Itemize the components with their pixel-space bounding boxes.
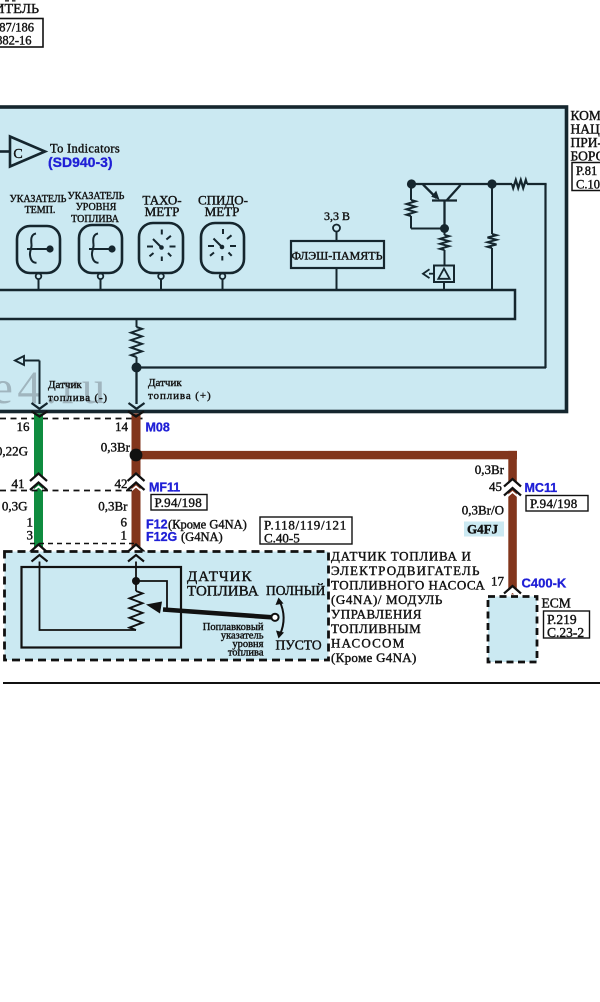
module text block: [331, 549, 485, 666]
bus bar: [0, 290, 515, 319]
svg-text:ДАТЧИК ТОПЛИВА И: ДАТЧИК ТОПЛИВА И: [331, 549, 472, 564]
float arm arrow: [163, 610, 272, 618]
node C: [440, 224, 449, 233]
gauge M3 tachometer: [139, 223, 183, 273]
brown chevron C400: [504, 586, 521, 598]
svg-text:МЕТР: МЕТР: [205, 204, 240, 219]
svg-text:ФЛЭШ-ПАМЯТЬ: ФЛЭШ-ПАМЯТЬ: [292, 249, 383, 263]
open chevron brown: [128, 555, 144, 562]
svg-text:(Кроме G4NA): (Кроме G4NA): [331, 650, 417, 665]
buzzer U2 (box with triangle): [423, 266, 454, 292]
svg-text:ПУСТО: ПУСТО: [276, 638, 322, 653]
svg-text:топлива (+): топлива (+): [148, 390, 212, 402]
gauge M3 stem: [158, 274, 164, 280]
resistor R5 below bus: [131, 319, 142, 363]
cluster callout text: [571, 108, 600, 164]
svg-text:ЭЛЕКТРОДВИГАТЕЛЬ: ЭЛЕКТРОДВИГАТЕЛЬ: [331, 563, 481, 578]
green chevrons MF11: [30, 474, 47, 493]
gauge M1 stem: [36, 274, 42, 280]
ref box P.94/198 right: [526, 496, 588, 512]
resistor R1 (base): [407, 184, 442, 229]
instrument cluster box: [0, 107, 567, 412]
wire down to connector: [135, 371, 137, 404]
svg-text:14: 14: [115, 419, 129, 434]
svg-text:C: C: [13, 147, 22, 162]
green wire: [34, 414, 43, 554]
brown wire: [132, 414, 141, 554]
header fuse label (cut off at page edge): [0, 0, 39, 17]
svg-text:МЕТР: МЕТР: [145, 204, 180, 219]
connector arrow (+): [129, 403, 145, 409]
ECM dashed box: [488, 597, 537, 663]
svg-text:(G4NA): (G4NA): [181, 530, 223, 544]
green chevron at sender: [30, 545, 47, 557]
svg-text:C.23-2: C.23-2: [547, 625, 584, 640]
node B: [487, 179, 496, 188]
resistor R3: [488, 184, 497, 291]
svg-text:0,3Br: 0,3Br: [101, 440, 131, 455]
brown chevrons MF11: [128, 474, 145, 493]
resistor R6 (sender element): [130, 591, 143, 630]
svg-text:F12G: F12G: [146, 530, 177, 544]
open chevron green: [32, 555, 48, 562]
svg-text:0,3Br: 0,3Br: [98, 499, 128, 514]
flash memory box: [291, 241, 384, 268]
node E: [132, 577, 140, 585]
node M08 junction: [130, 449, 143, 462]
svg-text:P.94/198: P.94/198: [155, 495, 203, 510]
ref box P.94/198: [151, 495, 207, 511]
bottom separator: [3, 682, 600, 684]
svg-text:ТОПЛИВА: ТОПЛИВА: [187, 584, 259, 600]
svg-text:G4FJ: G4FJ: [467, 522, 499, 537]
svg-text:41: 41: [12, 476, 25, 491]
gauge M4 stem: [220, 274, 226, 280]
svg-text:C400-K: C400-K: [522, 576, 567, 591]
svg-text:УРОВНЯ: УРОВНЯ: [76, 202, 117, 213]
node D (fuel signal junction): [132, 363, 142, 373]
right feedback wire: [544, 184, 546, 368]
svg-text:0,3Br/O: 0,3Br/O: [462, 503, 504, 518]
header reference box 87/186 82-16: [0, 19, 43, 48]
label float: [203, 622, 264, 659]
connector chevrons below box: [32, 411, 48, 416]
svg-text:УКАЗАТЕЛЬ: УКАЗАТЕЛЬ: [10, 194, 67, 205]
fuel sender (-) arrow: [15, 356, 24, 365]
svg-text:топлива: топлива: [228, 648, 264, 659]
svg-text:C.40-5: C.40-5: [264, 531, 300, 546]
svg-text:РАНИТЕЛЬ: РАНИТЕЛЬ: [0, 2, 39, 17]
connector M08 dashed line: [0, 418, 143, 420]
gauge M4 speedometer: [201, 223, 244, 273]
svg-text:45: 45: [489, 479, 502, 494]
buffer U1 "C" to indicators: [0, 137, 45, 167]
svg-text:0,22G: 0,22G: [0, 444, 28, 459]
svg-text:MC11: MC11: [525, 481, 558, 495]
fuel sender dashed box: [5, 552, 329, 661]
swing arc: [280, 601, 284, 635]
wire flash to bus: [336, 268, 338, 291]
svg-text:ECM: ECM: [542, 596, 571, 611]
svg-text:C.103: C.103: [576, 178, 600, 192]
svg-text:Датчик: Датчик: [48, 379, 82, 391]
svg-text:ТЕМП.: ТЕМП.: [25, 205, 56, 216]
resistor R2: [440, 229, 449, 266]
svg-text:БОРОВ: БОРОВ: [571, 149, 600, 164]
wire left inside: [40, 562, 137, 631]
brown wire horizontal: [136, 451, 517, 459]
brown chevron at sender: [128, 545, 145, 557]
ref box P.81: [572, 163, 600, 191]
svg-text:ТОПЛИВНОГО НАСОСА: ТОПЛИВНОГО НАСОСА: [331, 578, 485, 593]
wire down left: [39, 361, 41, 405]
svg-text:топлива (-): топлива (-): [48, 392, 108, 404]
svg-text:ТОПЛИВА: ТОПЛИВА: [71, 214, 119, 225]
svg-text:3,3 В: 3,3 В: [324, 209, 350, 223]
wiper tie wire: [136, 581, 167, 610]
brown chevrons MC11: [504, 479, 521, 498]
node A: [407, 179, 416, 188]
brown wire vertical right: [508, 451, 517, 595]
svg-text:P.81: P.81: [576, 164, 597, 178]
top rail wire: [411, 180, 547, 368]
sender inner box: [22, 567, 182, 648]
svg-text:Датчик: Датчик: [148, 377, 182, 389]
gauge M2 fuel level: [79, 225, 122, 273]
svg-text:MF11: MF11: [149, 481, 180, 495]
svg-text:ТОПЛИВНЫМ: ТОПЛИВНЫМ: [331, 621, 421, 636]
svg-text:16: 16: [17, 419, 31, 434]
resistor R4 (horizontal): [512, 180, 527, 188]
gauge M2 stem: [98, 274, 104, 280]
svg-text:(G4NA)/ МОДУЛЬ: (G4NA)/ МОДУЛЬ: [331, 592, 443, 607]
svg-text:0,3G: 0,3G: [2, 499, 28, 514]
G4FJ highlight: [464, 522, 504, 537]
pivot: [271, 614, 278, 621]
svg-text:УКАЗАТЕЛЬ: УКАЗАТЕЛЬ: [68, 191, 125, 202]
connector MF11 dashed line: [0, 490, 136, 492]
ref box P.118/119/121: [260, 517, 352, 544]
svg-text:1: 1: [121, 528, 128, 543]
svg-text:0,3Br: 0,3Br: [475, 462, 505, 477]
svg-text:M08: M08: [146, 421, 170, 435]
feedback wire to right: [140, 366, 546, 368]
gauge labels: [10, 191, 125, 225]
wire right inside: [135, 562, 137, 592]
transistor Q1: [423, 185, 461, 229]
svg-text:17: 17: [491, 574, 505, 589]
svg-text:3: 3: [27, 528, 34, 543]
svg-text:НАСОСОМ: НАСОСОМ: [331, 636, 405, 651]
gauge M1 temperature: [17, 226, 60, 273]
svg-text:42: 42: [115, 476, 128, 491]
svg-text:P.94/198: P.94/198: [530, 496, 578, 511]
thin dashed line F12 bottom: [30, 543, 137, 545]
svg-text:(SD940-3): (SD940-3): [48, 154, 113, 170]
svg-text:882-16: 882-16: [0, 34, 32, 48]
ref box P.219: [544, 611, 590, 638]
svg-text:ПОЛНЫЙ: ПОЛНЫЙ: [266, 583, 326, 598]
svg-text:УПРАВЛЕНИЯ: УПРАВЛЕНИЯ: [331, 607, 422, 622]
svg-text:87/186: 87/186: [0, 21, 34, 35]
connector arrow (-): [32, 403, 48, 409]
